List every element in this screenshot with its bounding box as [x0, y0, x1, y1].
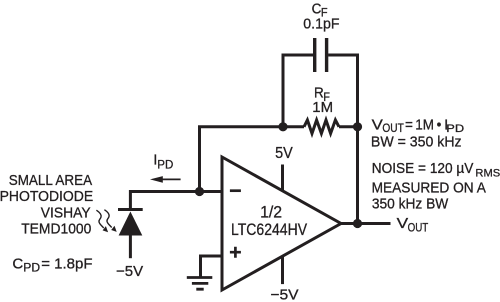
svg-text:PHOTODIODE: PHOTODIODE: [0, 189, 94, 206]
svg-text:OUT: OUT: [382, 122, 404, 135]
svg-text:C: C: [12, 256, 23, 273]
svg-text:•: •: [437, 117, 442, 134]
svg-text:BW = 350 kHz: BW = 350 kHz: [371, 134, 462, 150]
svg-text:PD: PD: [157, 159, 173, 171]
svg-text:NOISE = 120 µV: NOISE = 120 µV: [372, 161, 474, 178]
svg-text:1/2: 1/2: [260, 203, 282, 221]
svg-text:MEASURED ON A: MEASURED ON A: [372, 180, 487, 197]
svg-text:−5V: −5V: [270, 287, 299, 302]
svg-text:5V: 5V: [275, 145, 293, 163]
svg-text:350 kHz BW: 350 kHz BW: [372, 196, 449, 213]
svg-text:−5V: −5V: [116, 263, 143, 280]
svg-text:0.1pF: 0.1pF: [303, 16, 339, 32]
svg-text:1M: 1M: [415, 117, 434, 134]
svg-text:VISHAY: VISHAY: [41, 205, 91, 222]
svg-text:LTC6244HV: LTC6244HV: [231, 221, 308, 239]
svg-text:TEMD1000: TEMD1000: [21, 221, 91, 238]
svg-text:SMALL AREA: SMALL AREA: [9, 173, 93, 190]
svg-text:V: V: [372, 117, 384, 133]
svg-text:= 1.8pF: = 1.8pF: [41, 256, 92, 273]
svg-text:V: V: [397, 215, 409, 232]
svg-text:OUT: OUT: [408, 222, 429, 235]
svg-text:RMS: RMS: [475, 167, 500, 179]
svg-text:PD: PD: [446, 121, 464, 134]
svg-text:PD: PD: [23, 262, 40, 275]
svg-text:=: =: [405, 117, 413, 134]
svg-text:1M: 1M: [312, 99, 333, 116]
